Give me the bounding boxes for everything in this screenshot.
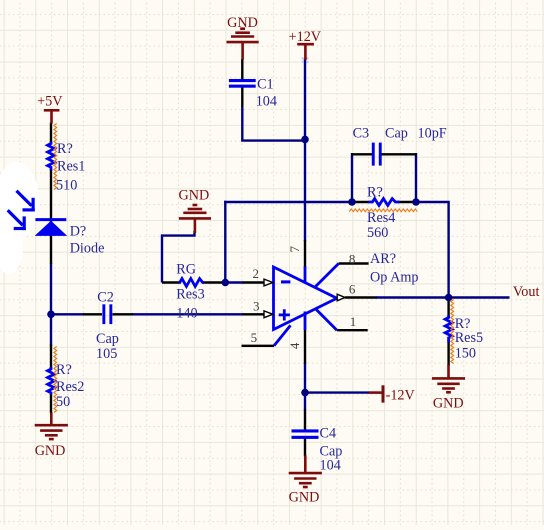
lead C4 top [304,409,306,430]
op-amp pin4 symbol segment [304,312,307,331]
ground R2 [35,413,68,440]
svg-text:104: 104 [320,458,341,474]
capacitor C1 plates [229,79,256,88]
wire output to Vout [376,296,510,298]
junction feedback left [348,198,356,206]
lead R4 left [352,201,369,203]
junction Vout [445,294,453,302]
wire C1 to +12V rail [242,106,305,141]
svg-text:50: 50 [56,394,70,410]
lead C3 left [351,153,372,155]
wire feedback horizontal [224,201,353,203]
op-amp pin5 diagonal [274,325,291,345]
junction -12V/C4 [301,389,309,397]
svg-text:C4: C4 [320,425,337,441]
wire C3 branch right [415,153,417,203]
lead R4 right [398,201,417,203]
ground C4 [289,456,322,488]
svg-text:C3: C3 [353,125,370,141]
pin 2 input arrow [264,279,273,286]
svg-text:Vout: Vout [513,284,540,300]
pin C1 top lead [241,59,243,80]
grid snap marker at +12V wire [302,57,309,63]
wire -12V stub horizontal [304,391,370,393]
resistor R4 [368,199,399,206]
resistor R1 [48,142,55,171]
svg-text:2: 2 [253,266,260,281]
ground top (C1) [227,29,259,60]
pin 7 lead [304,240,306,267]
svg-text:R?: R? [57,141,73,157]
pin 5 lead [242,345,275,347]
ground R5 [432,365,465,393]
svg-text:3: 3 [253,299,260,314]
wire feedback to output [415,202,449,299]
svg-text:D?: D? [70,224,87,240]
lead C4 bottom [304,439,306,457]
svg-text:Diode: Diode [70,241,105,257]
svg-text:Cap: Cap [385,125,408,141]
svg-text:Res4: Res4 [367,210,395,226]
pin 6 output arrow [337,294,345,301]
svg-text:Res5: Res5 [455,330,483,346]
wire RG gnd connection [162,231,195,283]
svg-text:AR?: AR? [370,251,396,267]
svg-text:150: 150 [455,346,476,362]
lead RG right [203,281,226,283]
svg-text:GND: GND [289,490,320,506]
op-amp pin1 diagonal [316,309,337,330]
svg-text:8: 8 [349,251,356,266]
lead R1 bottom / diode line [50,170,52,265]
lead R5 bottom [447,342,449,366]
selection hatch R2 [54,347,57,413]
svg-text:R?: R? [56,362,72,378]
resistor R5 [445,316,452,343]
lead R2 bottom [50,395,52,414]
pin 4 lead [304,329,306,364]
svg-text:Res2: Res2 [56,379,84,395]
op-amp minus sign [281,280,290,283]
pin C1 bottom lead [241,88,243,108]
lead RG left [162,281,179,283]
selection hatch R1 [54,124,57,190]
svg-text:7: 7 [287,245,302,252]
svg-text:C1: C1 [257,76,274,92]
svg-text:140: 140 [176,305,197,321]
wire C2 to pin3 [132,313,244,315]
svg-text:104: 104 [256,94,277,110]
power +12V [297,44,314,60]
lead R1 top [50,123,52,143]
power -12V [369,385,383,402]
lead R5 top [447,298,449,317]
svg-text:1: 1 [350,314,357,329]
svg-text:10pF: 10pF [418,125,447,141]
wire photodiode node vertical [50,263,52,346]
highlight blob [0,162,39,274]
op-amp pin7 symbol segment [304,266,307,283]
svg-text:Op Amp: Op Amp [370,270,418,286]
svg-text:GND: GND [179,187,210,203]
svg-text:GND: GND [227,15,258,31]
op-amp plus sign [279,309,290,320]
wire pin4 to -12V node [304,363,306,411]
svg-text:5: 5 [251,330,258,345]
lead C3 right [381,153,417,155]
svg-text:R?: R? [367,184,383,200]
resistor RG (Res3) [179,279,204,287]
capacitor C2 plates [102,304,112,324]
photodiode light arrow 1 [17,191,35,212]
wire inverting node to pin2 [225,281,243,283]
svg-text:560: 560 [367,225,388,241]
lead R2 top [50,345,52,369]
svg-text:105: 105 [96,346,117,362]
lead C2 left [83,313,102,315]
lead C2 right [113,313,134,315]
wire feedback vertical left [224,201,226,284]
svg-text:6: 6 [349,282,356,297]
junction feedback right [412,198,420,206]
photodiode D? cathode bar [35,218,66,221]
photodiode light arrow 2 [8,210,26,230]
pin 3 lead [243,313,265,315]
svg-text:-12V: -12V [386,388,416,404]
selection hatch R4 [349,209,417,212]
svg-text:510: 510 [56,177,77,193]
wire C3 branch left [351,153,353,203]
svg-text:+5V: +5V [37,93,63,109]
pin 3 input arrow [264,311,273,318]
pin 6 lead [345,296,377,298]
svg-text:C2: C2 [97,290,114,306]
svg-text:GND: GND [35,443,66,459]
svg-text:4: 4 [287,342,302,349]
op-amp AR? triangle [274,267,337,330]
junction +12V/C1 [301,136,309,144]
op-amp pin8 diagonal [315,264,339,288]
svg-text:GND: GND [433,395,464,411]
junction inverting input [222,279,230,287]
selection hatch R5 [451,300,454,364]
svg-text:Res1: Res1 [57,159,85,175]
wire node to C2 [50,313,84,315]
pin 8 lead [339,262,369,264]
junction photodiode/C2 [47,311,55,319]
svg-text:Res3: Res3 [176,287,204,303]
pin 1 lead [337,329,368,331]
svg-text:RG: RG [176,262,196,278]
photodiode D? triangle [35,221,68,236]
svg-text:Cap: Cap [96,331,119,347]
pin 2 lead [243,281,265,283]
ground RG [179,205,211,233]
svg-text:+12V: +12V [289,29,322,45]
wire +12V rail vertical [304,59,306,242]
capacitor C3 plates [372,143,382,166]
resistor R2 [48,367,55,395]
capacitor C4 plates [292,429,319,439]
power +5V [44,110,60,123]
